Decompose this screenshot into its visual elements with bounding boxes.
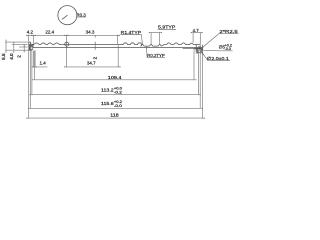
svg-text:109.4: 109.4 bbox=[108, 75, 122, 80]
svg-text:34.3: 34.3 bbox=[86, 29, 95, 34]
svg-text:1.4: 1.4 bbox=[40, 60, 47, 65]
svg-text:4.7: 4.7 bbox=[192, 28, 199, 33]
svg-text:34.7: 34.7 bbox=[87, 61, 96, 66]
svg-text:R1.4TYP: R1.4TYP bbox=[121, 30, 141, 35]
svg-text:∅2.0±0.1: ∅2.0±0.1 bbox=[207, 56, 230, 61]
svg-text:-0.0: -0.0 bbox=[114, 104, 122, 108]
svg-text:118: 118 bbox=[110, 113, 119, 118]
svg-text:R0.3: R0.3 bbox=[76, 13, 86, 18]
svg-text:113.2: 113.2 bbox=[101, 88, 114, 93]
svg-text:22.4: 22.4 bbox=[45, 29, 54, 34]
svg-text:4.0: 4.0 bbox=[9, 53, 14, 60]
svg-text:-0.0: -0.0 bbox=[225, 47, 231, 51]
svg-text:2: 2 bbox=[16, 55, 21, 58]
svg-text:2*R2.5: 2*R2.5 bbox=[219, 29, 238, 34]
svg-text:5.5: 5.5 bbox=[1, 53, 6, 60]
svg-text:115.6: 115.6 bbox=[101, 101, 114, 106]
svg-text:5.9TYP: 5.9TYP bbox=[158, 25, 175, 30]
svg-text:4.2: 4.2 bbox=[27, 29, 34, 34]
svg-text:R0.2TYP: R0.2TYP bbox=[147, 53, 165, 58]
svg-text:2: 2 bbox=[92, 56, 97, 59]
svg-text:-0.2: -0.2 bbox=[114, 90, 122, 94]
